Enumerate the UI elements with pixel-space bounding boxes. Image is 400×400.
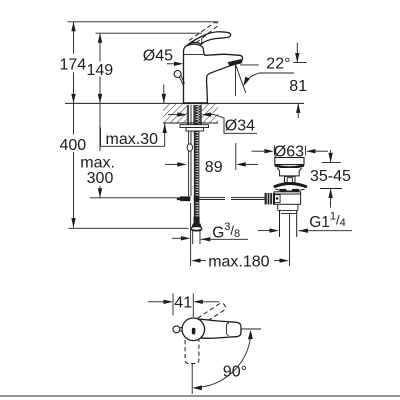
svg-text:35-45: 35-45	[310, 168, 351, 185]
plug stem square	[285, 176, 296, 182]
extension line under clevis (max180 left)	[190, 203, 192, 266]
O63 arrows	[252, 150, 265, 152]
svg-text:22°: 22°	[266, 55, 290, 72]
line right of lever	[242, 328, 262, 330]
knurled knob	[265, 193, 275, 204]
svg-text:89: 89	[205, 159, 223, 176]
dimension 174 line	[73, 22, 75, 104]
shank bolt edges through countertop	[186, 105, 188, 125]
plug neck	[277, 168, 302, 176]
dimension 81	[293, 43, 307, 119]
mounting washer	[180, 125, 209, 128]
pop-up linkage rod	[199, 198, 264, 200]
countertop bottom line	[163, 122, 218, 124]
body seam line	[184, 53, 204, 55]
flange slots	[280, 189, 287, 192]
22 deg leader to text	[240, 64, 259, 66]
drain step	[278, 204, 298, 210]
22 degree rays	[235, 65, 237, 96]
tailpipe	[279, 210, 281, 237]
svg-text:Ø34: Ø34	[225, 118, 255, 135]
dimension 149 line	[99, 33, 101, 103]
22 underline and arc arrow	[260, 72, 295, 74]
hose nut bell (G 3/8)	[194, 217, 200, 224]
rod joint ellipse	[187, 144, 192, 151]
lever dashed (rotated)	[198, 303, 226, 322]
lever (top view)	[193, 319, 242, 339]
handle-body junction tick	[200, 38, 203, 45]
label O34 with leader	[205, 114, 214, 116]
centerline below spout	[191, 364, 193, 394]
drain flange dome	[274, 184, 307, 188]
dimension 41	[148, 301, 166, 303]
G1 1/4 arrows + underline	[258, 230, 272, 232]
svg-text:41: 41	[174, 294, 192, 311]
clevis connector on rod	[180, 196, 190, 201]
dimension O45 arrows	[167, 63, 176, 65]
lines below bell	[192, 231, 194, 244]
aerator (dark)	[228, 59, 243, 66]
max.180 arrows	[191, 258, 201, 262]
bottom page line	[0, 395, 400, 397]
max.300 bottom extension line	[90, 197, 178, 199]
svg-text:174: 174	[59, 56, 86, 73]
countertop hatch left	[163, 104, 187, 123]
countertop hatch right	[201, 104, 218, 123]
svg-text:Ø45: Ø45	[143, 47, 173, 64]
dimension 400 line	[73, 103, 75, 227]
90 degree arc	[197, 335, 251, 388]
faucet body	[184, 44, 243, 103]
pop-up knob on body	[174, 71, 181, 78]
handle raised (dashed)	[189, 22, 218, 42]
svg-text:400: 400	[59, 137, 86, 154]
extension line top reference (tap max height)	[68, 21, 219, 23]
svg-text:149: 149	[86, 62, 113, 79]
drain plug head	[275, 158, 304, 165]
G3/8 arrows	[172, 237, 182, 239]
pop-up rod (vertical, down to clevis)	[188, 105, 190, 196]
supply hose braided column	[194, 105, 200, 128]
extension line 149 reference	[96, 32, 203, 34]
dimension max.300 line	[99, 104, 101, 198]
body circle (top view)	[182, 318, 205, 341]
dimension max.30	[101, 85, 165, 147]
neck between circles	[180, 327, 183, 329]
lever end cap inner line	[227, 323, 230, 335]
mounting nut	[186, 128, 204, 132]
body base bottom thick edge	[183, 102, 208, 104]
svg-text:81: 81	[289, 78, 307, 95]
dimension 89	[165, 163, 179, 165]
svg-text:300: 300	[87, 170, 114, 187]
svg-text:max.180: max.180	[208, 253, 269, 270]
countertop top line	[65, 102, 304, 104]
handle (solid)	[187, 32, 231, 46]
small circle (pop-up knob top view)	[173, 326, 180, 333]
handle slot dark	[192, 328, 196, 335]
svg-text:90°: 90°	[223, 363, 247, 380]
dimension 35-45	[320, 150, 342, 208]
spout (top view, dashed hidden)	[185, 340, 199, 364]
bottom reference line (400)	[69, 227, 189, 229]
svg-text:max.30: max.30	[106, 131, 159, 148]
drain body	[274, 192, 301, 205]
